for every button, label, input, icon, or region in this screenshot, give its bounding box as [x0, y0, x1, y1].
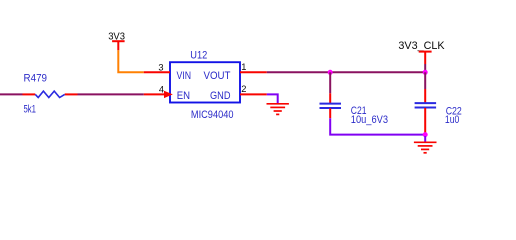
wire left net to pin4 [78, 93, 144, 95]
svg-text:2: 2 [241, 84, 246, 94]
svg-text:GND: GND [210, 90, 231, 102]
node junction A dot [328, 70, 333, 75]
svg-text:VIN: VIN [177, 70, 192, 82]
wire 3V3_CLK net: pin1 to junctions [267, 71, 423, 73]
pin 3 VIN [144, 62, 191, 81]
capacitor C22 [415, 89, 462, 133]
power symbol 3V3 [108, 32, 125, 51]
wire node C to ground [424, 136, 426, 142]
svg-text:R479: R479 [24, 72, 48, 84]
svg-text:3V3_CLK: 3V3_CLK [398, 40, 445, 52]
svg-text:10u_6V3: 10u_6V3 [351, 114, 388, 126]
wire C21 top drop [329, 72, 331, 93]
node junction C dot [423, 132, 428, 137]
wire 3V3_CLK vertical to node B [424, 64, 426, 72]
svg-text:MIC94040: MIC94040 [191, 109, 234, 121]
wire GND net elbow from pin 2 [267, 94, 278, 103]
wire GND net bottom from C21 [330, 118, 423, 134]
pin 2 GND [210, 84, 267, 102]
node junction B dot [423, 70, 428, 75]
svg-text:U12: U12 [190, 50, 207, 62]
svg-text:3: 3 [158, 62, 163, 72]
ground symbol left [267, 104, 289, 115]
resistor R479 [23, 72, 78, 115]
svg-text:4: 4 [159, 85, 164, 95]
pin 1 VOUT [204, 62, 267, 82]
power symbol 3V3_CLK [398, 40, 445, 64]
capacitor C21 [320, 93, 389, 126]
svg-text:VOUT: VOUT [204, 70, 231, 82]
wire 3V3 net orange [118, 50, 144, 72]
wire node B down to C22 [424, 72, 426, 89]
svg-text:1u0: 1u0 [445, 114, 459, 126]
IC U12 MIC94040 regulator body [170, 50, 240, 122]
wire left net horizontal [0, 93, 23, 95]
svg-text:EN: EN [177, 90, 190, 102]
svg-text:1: 1 [241, 62, 246, 72]
pin 4 EN with arrowhead [144, 85, 190, 103]
svg-text:5k1: 5k1 [24, 104, 37, 116]
ground symbol right [414, 142, 437, 153]
